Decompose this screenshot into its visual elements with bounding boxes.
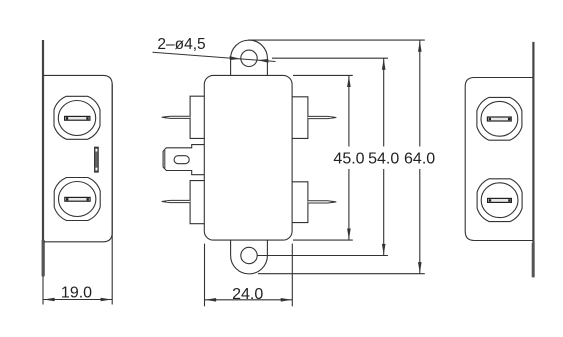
ground tab xyxy=(163,145,204,175)
right upper socket slot xyxy=(487,117,511,121)
left view body right edge / extension line xyxy=(111,84,113,305)
lower right pin xyxy=(308,201,336,203)
dimension 19.0 right arrow xyxy=(101,298,112,302)
ground tab oval hole xyxy=(174,156,189,164)
dim 54.0 arrows xyxy=(382,59,386,70)
middle bottom ear hole xyxy=(241,247,257,263)
lower left terminal block xyxy=(190,181,204,224)
svg-text:24.0: 24.0 xyxy=(232,286,263,303)
left view vertical vent slot xyxy=(95,147,99,172)
lower left pin xyxy=(162,200,190,202)
dim 64.0 line xyxy=(419,40,421,146)
right lower socket outer xyxy=(477,179,522,222)
svg-text:19.0: 19.0 xyxy=(61,285,92,302)
dim 45.0 bottom extension line xyxy=(293,239,353,241)
svg-text:2–ø4,5: 2–ø4,5 xyxy=(157,36,205,53)
dim 24.0 arrows xyxy=(205,298,216,302)
right upper socket inner circle xyxy=(481,101,518,136)
dim 24.0 line xyxy=(205,299,293,301)
left upper socket slot xyxy=(65,116,90,120)
leader arrow at hole right edge xyxy=(257,59,268,63)
left upper socket inner circle xyxy=(58,101,95,136)
svg-text:64.0: 64.0 xyxy=(404,150,435,167)
left upper socket outer xyxy=(54,96,100,139)
leader arrow at hole left edge xyxy=(230,56,241,60)
middle bottom mounting ear xyxy=(231,240,268,274)
upper right pin xyxy=(308,116,336,118)
dimension 19.0 left extension line xyxy=(42,277,44,305)
left lower socket slot xyxy=(65,197,90,201)
dim 45.0 arrows xyxy=(347,76,351,87)
svg-text:54.0: 54.0 xyxy=(368,150,399,167)
right view body xyxy=(465,78,533,241)
upper left pin xyxy=(162,116,190,118)
dim 54.0 top extension line xyxy=(272,57,388,59)
dim 54.0 bottom extension line xyxy=(258,255,389,257)
right view flange xyxy=(532,42,534,278)
dim 64.0 arrows xyxy=(418,41,422,52)
dimension 19.0 line xyxy=(43,299,112,301)
dim 45.0 line xyxy=(348,75,350,146)
left lower socket inner circle xyxy=(58,182,95,217)
left view body xyxy=(44,75,113,241)
dim 54.0 line xyxy=(383,58,385,146)
right lower socket slot xyxy=(488,198,512,202)
dim 24.0 right extension line xyxy=(291,244,293,307)
upper right terminal block xyxy=(292,97,308,139)
right upper socket outer xyxy=(477,97,522,140)
dim 45.0 top extension line xyxy=(293,74,353,76)
middle top mounting ear xyxy=(231,40,268,75)
dim 24.0 left extension line xyxy=(204,244,206,307)
middle top ear hole xyxy=(241,50,257,66)
middle view body xyxy=(204,75,292,240)
dim 64.0 bottom extension line xyxy=(258,273,425,275)
svg-text:45.0: 45.0 xyxy=(333,150,364,167)
upper left terminal block xyxy=(190,96,204,138)
lower right terminal block xyxy=(292,182,308,223)
leader line xyxy=(153,52,276,61)
dimension 19.0 left arrow xyxy=(44,298,55,302)
right lower socket inner circle xyxy=(481,183,518,218)
left view flange xyxy=(42,40,44,277)
left lower socket outer xyxy=(54,178,100,221)
dim 64.0 top extension line xyxy=(248,39,425,41)
